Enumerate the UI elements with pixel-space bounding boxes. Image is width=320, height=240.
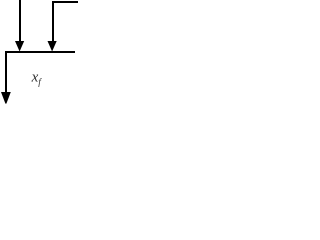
wire: middle horizontal bus line	[5, 51, 75, 53]
wire: right input arrow vertical segment	[52, 1, 54, 42]
svg-text:f: f	[38, 77, 42, 88]
arrowhead of left input arrow	[15, 41, 24, 52]
arrowhead of right input arrow	[48, 41, 57, 52]
wire: left output vertical segment	[5, 51, 7, 93]
wire: left input arrow vertical segment	[19, 0, 21, 42]
arrowhead of output arrow	[1, 92, 11, 104]
wire: right input elbow horizontal segment	[52, 1, 78, 3]
